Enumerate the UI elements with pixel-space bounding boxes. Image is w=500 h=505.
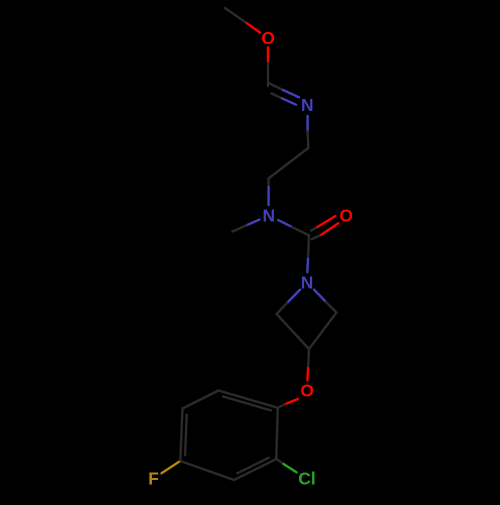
svg-text:O: O xyxy=(300,381,314,401)
wire N2-C7 bond carbon half xyxy=(292,227,309,236)
wire N3-CR azetidine arm carbon half xyxy=(326,302,337,313)
wire C7-N3 bond carbon half xyxy=(308,236,309,260)
wire methoxy CH3-O1 bond carbon half xyxy=(225,8,247,23)
wire benzene C2'-C1' bond xyxy=(276,408,278,459)
wire methoxy CH3-O1 bond oxygen half xyxy=(247,23,260,32)
wire benzene C4'-C3' bond xyxy=(180,461,234,480)
wire C7=O2 double bond line A oxygen half xyxy=(317,216,335,227)
wire C5-N2 bond nitrogen half xyxy=(267,187,269,205)
wire benzene C4'=C5' inner double line xyxy=(185,415,187,456)
wire C4'-F bond fluorine colored xyxy=(162,462,180,473)
wire N3-CL azetidine arm carbon half xyxy=(277,303,288,314)
svg-text:N: N xyxy=(263,206,276,226)
wire C5-N2 bond carbon half xyxy=(267,179,270,188)
wire O1-C2 bond carbon half xyxy=(267,63,269,86)
wire CB-O4 bond oxygen half xyxy=(306,368,309,381)
wire C2=N1 double bond line B carbon half xyxy=(272,94,283,99)
wire C2=N1 double bond line A carbon half xyxy=(270,84,284,91)
wire benzene C1'-C6' bond xyxy=(219,391,278,408)
wire N1-C6 bond carbon half xyxy=(306,132,309,149)
wire C6-C5 bond xyxy=(269,148,309,179)
wire C7=O2 double bond line B carbon half xyxy=(312,235,322,239)
wire C2=N1 double bond line A nitrogen half xyxy=(283,90,299,97)
wire N3-CR azetidine arm nitrogen half xyxy=(314,290,326,302)
wire O4-C1' bond oxygen half xyxy=(285,399,298,404)
wire benzene C3'-C2' bond xyxy=(234,459,276,480)
wire CL-CB azetidine bond xyxy=(277,314,310,349)
wire N2-methyl bond carbon half xyxy=(233,225,247,231)
svg-text:O: O xyxy=(261,28,275,48)
wire O4-C1' bond carbon half xyxy=(278,404,285,408)
wire N1-C6 bond nitrogen half xyxy=(306,116,308,132)
svg-text:Cl: Cl xyxy=(298,469,315,489)
wire N3-CL azetidine arm nitrogen half xyxy=(287,290,300,303)
wire N2-C7 bond nitrogen half xyxy=(278,220,292,227)
wire benzene C6'=C1' inner double line xyxy=(223,397,271,411)
wire C2'-Cl bond chlorine half xyxy=(284,464,297,472)
wire benzene C2'=C3' inner double line xyxy=(237,458,268,474)
wire CB-O4 bond carbon half xyxy=(307,349,310,368)
svg-text:N: N xyxy=(301,273,314,293)
wire C7-N3 bond nitrogen half xyxy=(306,259,309,272)
wire CR-CB azetidine bond xyxy=(309,313,337,350)
wire C7=O2 double bond line A carbon half xyxy=(311,227,317,231)
wire C2=N1 double bond line B nitrogen half xyxy=(282,98,296,104)
svg-text:O: O xyxy=(339,206,353,226)
wire O1-C2 bond oxygen half xyxy=(267,48,269,64)
svg-text:N: N xyxy=(301,95,314,115)
wire benzene C6'-C5' bond xyxy=(183,391,219,409)
wire N2-methyl bond nitrogen half xyxy=(246,220,259,226)
wire C2'-Cl bond carbon half xyxy=(276,459,284,465)
svg-text:F: F xyxy=(148,469,159,489)
wire benzene C5'-C4' bond xyxy=(180,409,182,462)
wire C7=O2 double bond line B oxygen half xyxy=(321,223,338,235)
